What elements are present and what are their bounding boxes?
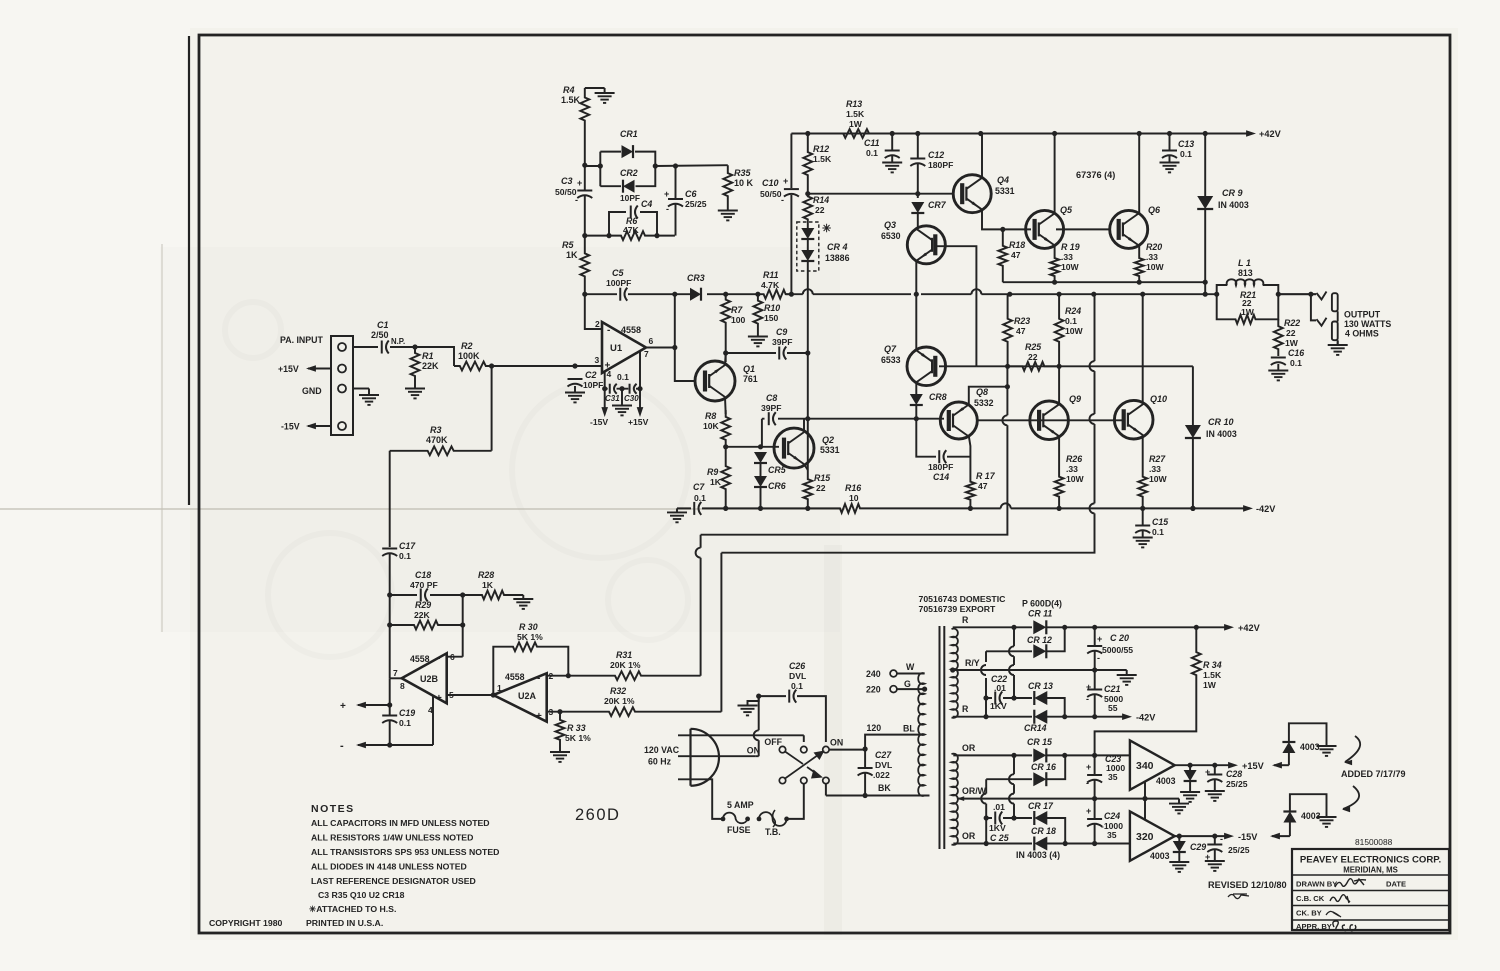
wire Q5 emitter down [1054,245,1056,252]
ground RY gnd [1126,670,1128,675]
svg-text:4558: 4558 [621,325,641,335]
switch S1 [779,746,785,752]
junction [637,386,642,391]
junction [412,344,417,349]
svg-text:G: G [904,679,911,689]
svg-text:4.7K: 4.7K [761,280,780,290]
junction [805,350,810,355]
svg-text:R: R [962,615,969,625]
svg-text:C.B. CK: C.B. CK [1296,894,1325,903]
svg-text:C26: C26 [789,661,805,671]
svg-text:R: R [962,704,969,714]
wire -15V drop [604,389,606,413]
svg-text:5331: 5331 [995,186,1015,196]
svg-text:+15V: +15V [1242,761,1265,771]
wire switch to C27 node [825,784,827,796]
wire Q7 emitter down [915,382,917,394]
wire C8 stub down [761,430,763,447]
wire R31 to vert [644,675,701,677]
circuit breaker TB [759,812,787,826]
svg-text:35: 35 [1107,830,1117,840]
wire R1 node to R2 [415,347,454,366]
capacitor C10 [784,188,799,190]
svg-text:5000/55: 5000/55 [1102,645,1133,655]
diode CR17 [1034,811,1047,825]
junction [1212,834,1217,839]
diode 4003c [1282,742,1295,753]
transistor Q2 [774,428,814,468]
svg-text:R 19: R 19 [1061,242,1080,252]
wire C18 R29 branches [390,595,463,657]
svg-text:APPR. BY: APPR. BY [1296,922,1332,931]
svg-text:CR8: CR8 [929,392,947,402]
wire Q8 base bus [808,418,944,420]
junction [1062,753,1067,758]
svg-text:R27: R27 [1149,454,1166,464]
wire C25 left down [985,818,987,844]
svg-text:R29: R29 [415,600,431,610]
border frame [199,35,1450,933]
svg-text:R 17: R 17 [976,471,996,481]
svg-text:0.1: 0.1 [866,148,878,158]
wire C6 top [675,166,677,199]
svg-text:1.5K: 1.5K [846,109,865,119]
svg-text:22K: 22K [422,361,439,371]
wire 320 gnd pin [1144,799,1146,820]
svg-text:47: 47 [1016,326,1026,336]
op-amp U2A [493,673,546,721]
junction [1092,796,1097,801]
junction [984,841,989,846]
svg-text:0.1: 0.1 [1152,527,1164,537]
wire C25 CR17 line [986,818,1065,844]
svg-text:39PF: 39PF [761,403,782,413]
svg-text:LAST REFERENCE DESIGNATOR U: LAST REFERENCE DESIGNATOR USED [311,876,476,886]
junction [387,702,392,707]
junction [805,506,810,511]
wire prong neutral [678,755,756,757]
transistor Q7 [907,347,946,386]
svg-text:OUTPUT: OUTPUT [1344,310,1381,320]
wire 220 tap [897,688,925,690]
wire R2 node down to R3 [491,366,493,451]
svg-text:50/50: 50/50 [555,187,577,197]
svg-text:6: 6 [649,336,654,346]
svg-text:1W: 1W [849,119,863,129]
wire U1 output [646,347,675,349]
svg-text:R15: R15 [814,473,830,483]
terminal 240 [890,670,897,677]
wire Q3 base right [936,246,976,290]
resistor R7 [721,294,730,328]
wire U2A pin3 line [547,711,606,713]
svg-text:.33: .33 [1066,464,1078,474]
wire OR bottom line [953,843,1130,845]
capacitor C3 [577,190,592,192]
svg-text:C4: C4 [641,199,652,209]
svg-text:+: + [1086,806,1091,816]
capacitor C8 [768,412,770,425]
wire Q6 emitter down [1138,245,1140,252]
wire Q7 collector up [915,294,917,350]
svg-text:-: - [781,195,784,205]
wire Q4 emitter down [982,210,1031,229]
svg-text:+15V: +15V [278,364,299,374]
capacitor C17 [382,548,397,550]
svg-text:0.1: 0.1 [791,681,803,691]
svg-text:4: 4 [607,369,612,379]
wire C3 to C4 node [584,196,586,236]
junction [1011,753,1016,758]
svg-text:+: + [577,178,582,188]
wire 320 out [1175,835,1228,837]
wire C20 wires [1094,627,1096,645]
diode CR18 [1034,837,1047,851]
wire 340 out [1175,764,1232,766]
junction [1137,131,1142,136]
junction [984,815,989,820]
diode CR15 [1033,748,1046,762]
wire CR9 top [1204,134,1206,197]
svg-text:DRAWN BY: DRAWN BY [1296,880,1337,889]
svg-text:39PF: 39PF [772,337,793,347]
wire driver feedback [696,366,1008,675]
junction [1000,227,1005,232]
transformer core [939,626,941,849]
svg-text:1K: 1K [566,250,578,260]
svg-text:COPYRIGHT 1980: COPYRIGHT 1980 [209,918,283,928]
svg-text:W: W [906,662,915,672]
junction [1007,292,1012,297]
junction [566,673,571,678]
resistor R2 [454,362,492,371]
svg-text:C13: C13 [1178,139,1194,149]
revised scribble [1228,894,1249,899]
svg-text:67376 (4): 67376 (4) [1076,170,1115,180]
wire R7 to C9 node [725,328,727,362]
svg-text:CR 18: CR 18 [1031,826,1056,836]
resistor R10 [754,294,763,330]
wire Q8 collector loop [969,387,1008,405]
wire C24 wires [1094,799,1096,819]
wire U1 out to Q1 base [675,294,695,381]
svg-text:-42V: -42V [1256,504,1276,514]
junction [1190,506,1195,511]
wire R8 to Q2 base [726,446,779,448]
wire C21 wires [1094,670,1096,689]
junction [1052,131,1057,136]
svg-text:-42V: -42V [1136,713,1156,723]
svg-text:120: 120 [867,723,882,733]
wire speaker sense minus [358,744,433,746]
junction [1092,667,1097,672]
svg-text:CR 12: CR 12 [1027,635,1052,645]
transistor Q4 [953,175,991,213]
wire R34 to reg [1095,700,1197,755]
wire main node line [675,289,1217,294]
diode CR11 [1033,620,1046,634]
transistor Q9 [1030,401,1069,440]
svg-text:10W: 10W [1146,262,1165,272]
fuse F1 [723,813,748,824]
wire Q8 emitter down [969,436,971,473]
wire R32 to vert [638,711,721,713]
svg-text:1KV: 1KV [990,701,1007,711]
svg-text:1.5K: 1.5K [813,154,832,164]
svg-text:Q6: Q6 [1148,205,1161,215]
wire C26 line [759,696,826,742]
junction [1092,753,1097,758]
wire jack feed bottom [1311,294,1316,320]
capacitor C16 [1271,357,1286,359]
junction [1011,625,1016,630]
junction [489,363,494,368]
svg-text:CR 9: CR 9 [1222,188,1243,198]
svg-text:.33: .33 [1149,464,1161,474]
capacitor C20 [1087,645,1102,647]
wire CR1 CR2 loop [585,152,656,187]
resistor R14 [803,194,812,222]
wire CR12 branch [986,627,1065,651]
svg-text:10W: 10W [1149,474,1168,484]
wire Q3 collector down [915,261,917,294]
wire C13 top [1169,134,1171,151]
svg-text:60 Hz: 60 Hz [648,757,672,767]
svg-text:FUSE: FUSE [727,825,751,835]
wire Q3Q7 link [975,289,977,366]
svg-text:R7: R7 [731,305,743,315]
ground 4003a gnd [1189,790,1191,792]
svg-text:-: - [437,653,440,664]
ground R1 gnd [414,382,416,389]
wire C4 R6 loop [609,212,657,236]
wire R4 top [585,87,605,89]
svg-text:150: 150 [764,313,779,323]
svg-text:Q10: Q10 [1150,394,1167,404]
svg-text:CR1: CR1 [620,129,638,139]
inductor L1 [1227,279,1264,285]
svg-text:BL: BL [903,724,915,734]
capacitor C14 [938,450,940,463]
arrow +15V U1 [637,407,644,417]
svg-text:20K 1%: 20K 1% [604,696,635,706]
diode CR4a [801,228,814,239]
signature RMH drawn [1335,879,1366,887]
svg-text:+15V: +15V [628,417,649,427]
diode CR9 [1197,196,1213,209]
resistor R31 [612,671,644,680]
svg-text:L 1: L 1 [1238,258,1251,268]
svg-text:20K 1%: 20K 1% [610,660,641,670]
junction [1214,292,1219,297]
svg-text:R20: R20 [1146,242,1162,252]
ground C13 gnd [1169,156,1171,163]
svg-text:180PF: 180PF [928,462,953,472]
svg-text:DVL: DVL [789,671,806,681]
svg-text:320: 320 [1136,831,1154,843]
svg-text:R24: R24 [1065,306,1081,316]
regulator 340 [1130,740,1175,789]
wire mid gnd stub [621,389,623,404]
fold line horizontal [0,508,845,510]
wire R bottom line [953,716,1128,718]
resistor R17 [966,473,975,508]
junction [1212,763,1217,768]
arrow +42V [1246,130,1256,137]
wire added upper loop [1288,753,1290,765]
ground ORW gnd [1178,799,1180,804]
wire 4003b leads [1178,836,1180,841]
capacitor C19 [382,715,397,717]
resistor R15 [803,470,812,508]
junction [1137,280,1142,285]
wire added lower loop [1289,823,1291,837]
capacitor C21 [1087,689,1102,691]
svg-text:-: - [666,204,669,214]
wire Q9 emitter down [1058,437,1060,465]
capacitor C1 [381,341,383,354]
junction [1092,714,1097,719]
svg-text:C9: C9 [776,327,787,337]
wire loop to C6 line [655,164,728,167]
svg-text:220: 220 [866,685,881,695]
svg-text:10W: 10W [1065,326,1084,336]
wire C12 top [917,134,919,159]
svg-text:1K: 1K [482,580,494,590]
wire -15V ext [1272,835,1290,837]
junction [387,622,392,627]
svg-text:10: 10 [849,493,859,503]
wire Q6 collector up [1138,134,1140,215]
svg-text:DVL: DVL [875,760,892,770]
resistor R5 [580,236,589,295]
junction [968,506,973,511]
junction [863,793,868,798]
ground C2 gnd [574,386,576,393]
junction [1057,364,1062,369]
svg-text:C12: C12 [928,150,944,160]
curved arrow upper [1345,736,1360,762]
wire OR-top down vert [1009,755,1014,818]
wire 120 BL line [865,735,925,749]
svg-text:1K: 1K [710,477,722,487]
resistor R34 [1192,627,1201,700]
svg-text:R4: R4 [563,85,575,95]
svg-text:IN 4003: IN 4003 [1218,200,1249,210]
wire Q10 emitter down [1142,437,1144,465]
wire jack feed top [1278,293,1316,295]
capacitor C18 [420,589,422,602]
svg-text:4558: 4558 [410,654,430,664]
capacitor C15 [1135,525,1150,527]
ground jack gnd [1337,341,1339,345]
junction [978,131,983,136]
wire U2B pin4 stub [432,696,434,745]
arrow -15V ext [1270,833,1280,840]
resistor R26 [1055,465,1064,508]
svg-text:R 33: R 33 [567,723,586,733]
svg-text:0.1: 0.1 [399,551,411,561]
svg-text:4003: 4003 [1156,776,1176,786]
junction [723,350,728,355]
svg-text:761: 761 [743,374,758,384]
svg-text:CR 11: CR 11 [1028,609,1052,619]
capacitor C24 [1087,818,1102,820]
svg-text:180PF: 180PF [928,160,953,170]
wire CR16 left vert [981,779,986,818]
ground R4 gnd [604,88,606,93]
capacitor C2 [568,378,583,380]
wire R3 to C17 [389,451,391,547]
resistor R28 [463,591,524,600]
diode CR2 [623,180,635,193]
capacitor C28 [1207,774,1222,776]
svg-text:Q2: Q2 [822,435,834,445]
svg-text:.01: .01 [994,683,1006,693]
svg-text:2: 2 [595,319,600,329]
wire C5 line [585,293,675,295]
svg-text:4003: 4003 [1301,811,1321,821]
svg-text:C11: C11 [864,138,880,148]
signature ck [1326,911,1341,917]
svg-text:R35: R35 [734,168,752,178]
wire C28 leads [1214,765,1216,774]
svg-text:CR7: CR7 [928,200,947,210]
capacitor C23 [1087,774,1102,776]
wire bypass cap line [605,388,640,390]
svg-text:22: 22 [816,483,826,493]
wire +15V ext [1274,764,1289,766]
resistor R27 [1138,465,1147,508]
svg-text:.01: .01 [993,802,1005,812]
svg-text:U2A: U2A [518,691,537,701]
svg-text:C10: C10 [762,178,779,188]
svg-text:47: 47 [1011,250,1021,260]
wire CR8 to base bus [915,405,917,419]
svg-text:BK: BK [878,783,891,793]
junction [805,131,810,136]
wire U1 pin4 stub [604,371,606,389]
junction [491,692,496,697]
svg-text:10W: 10W [1066,474,1085,484]
junction [1194,625,1199,630]
junction [950,667,955,672]
junction [1190,506,1195,511]
capacitor C30 [629,384,631,394]
svg-text:C28: C28 [1226,769,1242,779]
arrow -15V [1224,833,1234,840]
svg-text:C15: C15 [1152,517,1168,527]
svg-text:R5: R5 [562,240,574,250]
svg-text:+: + [536,711,542,722]
wire Q10 collector up [1142,294,1144,403]
svg-text:ALL RESISTORS 1/4W UNLESS: ALL RESISTORS 1/4W UNLESS NOTED [311,833,473,843]
transformer secondary lower [952,754,958,845]
wire Q7 base right [939,365,976,367]
svg-text:C27: C27 [875,750,892,760]
resistor R11 [758,290,792,299]
wire fuse line [720,818,723,820]
svg-text:-: - [340,740,344,752]
wire emitter bus [1003,281,1205,283]
svg-text:81500088: 81500088 [1355,837,1393,847]
svg-text:R31: R31 [616,650,632,660]
svg-text:2/50: 2/50 [371,330,389,340]
junction [922,687,927,692]
arrow -42V psu [1122,713,1132,720]
junction [723,506,728,511]
svg-text:C1: C1 [377,320,389,330]
